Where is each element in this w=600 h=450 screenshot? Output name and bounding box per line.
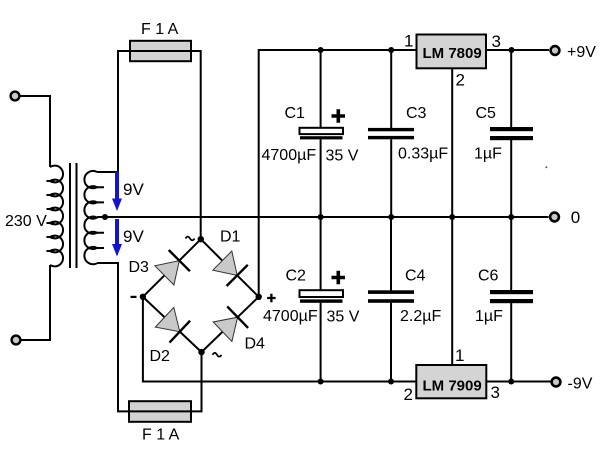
svg-text:230 V: 230 V bbox=[5, 213, 47, 230]
label minus bbox=[131, 296, 137, 298]
label ~ top bbox=[186, 237, 195, 241]
svg-text:9V: 9V bbox=[123, 180, 144, 199]
capacitor C1 bbox=[300, 50, 346, 217]
svg-text:LM 7909: LM 7909 bbox=[423, 378, 482, 395]
svg-text:1µF: 1µF bbox=[474, 146, 502, 163]
capacitor C3 bbox=[368, 50, 414, 217]
wire bottom fuse to bridge bottom node bbox=[191, 352, 202, 411]
svg-text:C4: C4 bbox=[405, 268, 426, 285]
svg-text:1: 1 bbox=[404, 32, 413, 51]
svg-text:2: 2 bbox=[456, 71, 465, 90]
capacitor C2 bbox=[300, 217, 346, 382]
diode D2 bbox=[155, 307, 190, 342]
regulator U1 LM7809 bbox=[417, 35, 487, 69]
transformer core bbox=[70, 163, 77, 268]
svg-text:D2: D2 bbox=[150, 348, 171, 365]
wire U2 pin3 output bbox=[486, 381, 550, 383]
wire center tap to 0 rail bbox=[97, 216, 549, 218]
fuse F1A top bbox=[130, 41, 191, 61]
junction dots top rail bbox=[318, 47, 324, 53]
svg-text:F 1 A: F 1 A bbox=[142, 427, 180, 444]
wire U2 pin1 to 0 rail bbox=[451, 217, 453, 365]
wire bridge minus to bottom rail bbox=[143, 297, 416, 382]
svg-text:D3: D3 bbox=[129, 259, 150, 276]
node center tap bbox=[102, 214, 108, 220]
junction dots 0 rail bbox=[318, 214, 324, 220]
wire secondary top to fuse bbox=[97, 51, 130, 172]
svg-text:35 V: 35 V bbox=[326, 148, 359, 165]
svg-text:35 V: 35 V bbox=[327, 309, 360, 326]
transformer primary winding bbox=[47, 166, 64, 267]
svg-text:D4: D4 bbox=[245, 336, 266, 353]
wire from top terminal to primary bbox=[20, 96, 50, 167]
svg-text:-9V: -9V bbox=[568, 376, 593, 393]
svg-text:F 1 A: F 1 A bbox=[141, 21, 179, 38]
label plus bbox=[267, 294, 275, 302]
terminal 0 bbox=[550, 213, 559, 222]
svg-text:C1: C1 bbox=[285, 105, 306, 122]
capacitor C6 bbox=[490, 217, 533, 382]
capacitor C4 bbox=[368, 217, 414, 382]
svg-text:9V: 9V bbox=[123, 227, 144, 246]
svg-text:LM 7809: LM 7809 bbox=[423, 45, 482, 62]
wire top fuse to bridge top node bbox=[191, 51, 201, 239]
terminal +9V bbox=[551, 46, 560, 55]
svg-text:+9V: +9V bbox=[567, 44, 596, 61]
terminal 230V bottom bbox=[12, 336, 21, 345]
wire from bottom terminal to primary bbox=[21, 265, 50, 340]
regulator U2 LM7909 bbox=[416, 365, 486, 398]
svg-text:C3: C3 bbox=[406, 105, 427, 122]
arrow 9V bottom bbox=[112, 219, 122, 257]
svg-text:1: 1 bbox=[455, 346, 464, 365]
capacitor C5 bbox=[490, 50, 533, 217]
svg-text:0: 0 bbox=[571, 208, 580, 227]
svg-text:0.33µF: 0.33µF bbox=[398, 146, 448, 163]
transformer secondary winding bbox=[84, 171, 104, 264]
node bridge left bbox=[140, 294, 146, 300]
stray speck bbox=[545, 166, 547, 168]
fuse F1A bottom bbox=[129, 401, 191, 422]
svg-text:2: 2 bbox=[404, 385, 413, 404]
wire U1 pin2 to 0 rail bbox=[451, 68, 453, 217]
svg-text:4700µF: 4700µF bbox=[263, 308, 318, 325]
svg-text:C2: C2 bbox=[286, 268, 307, 285]
junction dots bottom rail bbox=[318, 379, 324, 385]
svg-text:3: 3 bbox=[491, 383, 500, 402]
bridge wires (diamond) bbox=[143, 239, 259, 352]
svg-text:D1: D1 bbox=[220, 229, 241, 246]
svg-text:4700µF: 4700µF bbox=[262, 147, 317, 164]
svg-text:C5: C5 bbox=[476, 105, 497, 122]
node bridge top bbox=[198, 236, 204, 242]
node bridge bottom bbox=[198, 349, 204, 355]
svg-text:3: 3 bbox=[492, 32, 501, 51]
node bridge right bbox=[256, 294, 262, 300]
diode D3 bbox=[155, 250, 190, 285]
terminal -9V bbox=[552, 378, 561, 387]
terminal 230V top bbox=[11, 92, 20, 101]
arrow 9V top bbox=[112, 172, 122, 212]
svg-text:2.2µF: 2.2µF bbox=[400, 308, 441, 325]
svg-text:1µF: 1µF bbox=[475, 308, 503, 325]
diode D4 bbox=[213, 306, 248, 341]
label ~ bottom bbox=[213, 353, 222, 357]
wire U1 pin3 output bbox=[486, 49, 549, 51]
wire bridge plus to top rail bbox=[259, 50, 417, 297]
wire secondary bottom to bottom fuse bbox=[97, 263, 129, 411]
svg-text:C6: C6 bbox=[478, 268, 499, 285]
diode D1 bbox=[213, 251, 248, 286]
